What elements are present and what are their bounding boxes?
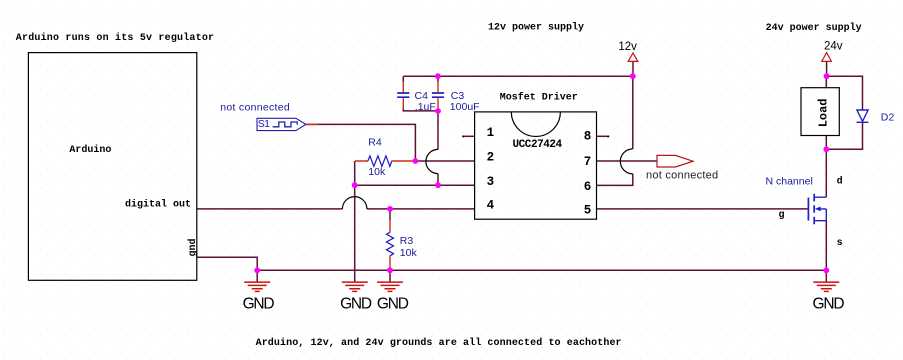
svg-text:3: 3 <box>487 175 495 189</box>
svg-text:R4: R4 <box>368 137 382 149</box>
svg-text:Mosfet Driver: Mosfet Driver <box>500 92 578 104</box>
svg-text:R3: R3 <box>400 235 414 247</box>
svg-text:6: 6 <box>584 180 592 194</box>
svg-text:12v power supply: 12v power supply <box>488 22 584 34</box>
svg-text:not connected: not connected <box>220 102 290 114</box>
svg-text:5: 5 <box>584 204 592 218</box>
svg-text:D2: D2 <box>881 112 895 124</box>
svg-text:gnd: gnd <box>187 238 199 256</box>
svg-text:not connected: not connected <box>646 170 718 182</box>
svg-text:digital out: digital out <box>125 199 191 211</box>
svg-text:Arduino runs on its 5v regula: Arduino runs on its 5v regulator <box>16 32 214 44</box>
svg-text:GND: GND <box>340 295 372 312</box>
svg-text:UCC27424: UCC27424 <box>513 139 563 151</box>
svg-text:Arduino, 12v, and 24v grounds: Arduino, 12v, and 24v grounds are all co… <box>256 337 622 349</box>
svg-text:100uF: 100uF <box>450 101 480 113</box>
svg-text:12v: 12v <box>618 41 637 53</box>
svg-text:4: 4 <box>487 199 495 213</box>
svg-text:2: 2 <box>487 151 495 165</box>
svg-text:.1uF: .1uF <box>415 101 436 113</box>
svg-text:GND: GND <box>243 295 275 312</box>
svg-text:Load: Load <box>817 98 831 127</box>
svg-text:10k: 10k <box>400 247 418 259</box>
svg-text:g: g <box>779 210 785 221</box>
svg-text:N channel: N channel <box>766 175 813 187</box>
svg-text:C4: C4 <box>415 90 429 102</box>
svg-text:GND: GND <box>377 295 409 312</box>
svg-text:8: 8 <box>584 130 592 144</box>
svg-text:C3: C3 <box>451 90 465 102</box>
svg-text:7: 7 <box>584 155 592 169</box>
svg-text:Arduino: Arduino <box>69 144 111 156</box>
svg-text:d: d <box>837 176 843 188</box>
svg-text:S1: S1 <box>258 118 270 130</box>
svg-text:1: 1 <box>487 126 495 140</box>
svg-text:10k: 10k <box>368 166 386 178</box>
svg-text:24v power supply: 24v power supply <box>766 22 862 34</box>
svg-text:24v: 24v <box>824 41 843 53</box>
svg-text:s: s <box>837 238 843 249</box>
svg-text:GND: GND <box>812 295 844 312</box>
